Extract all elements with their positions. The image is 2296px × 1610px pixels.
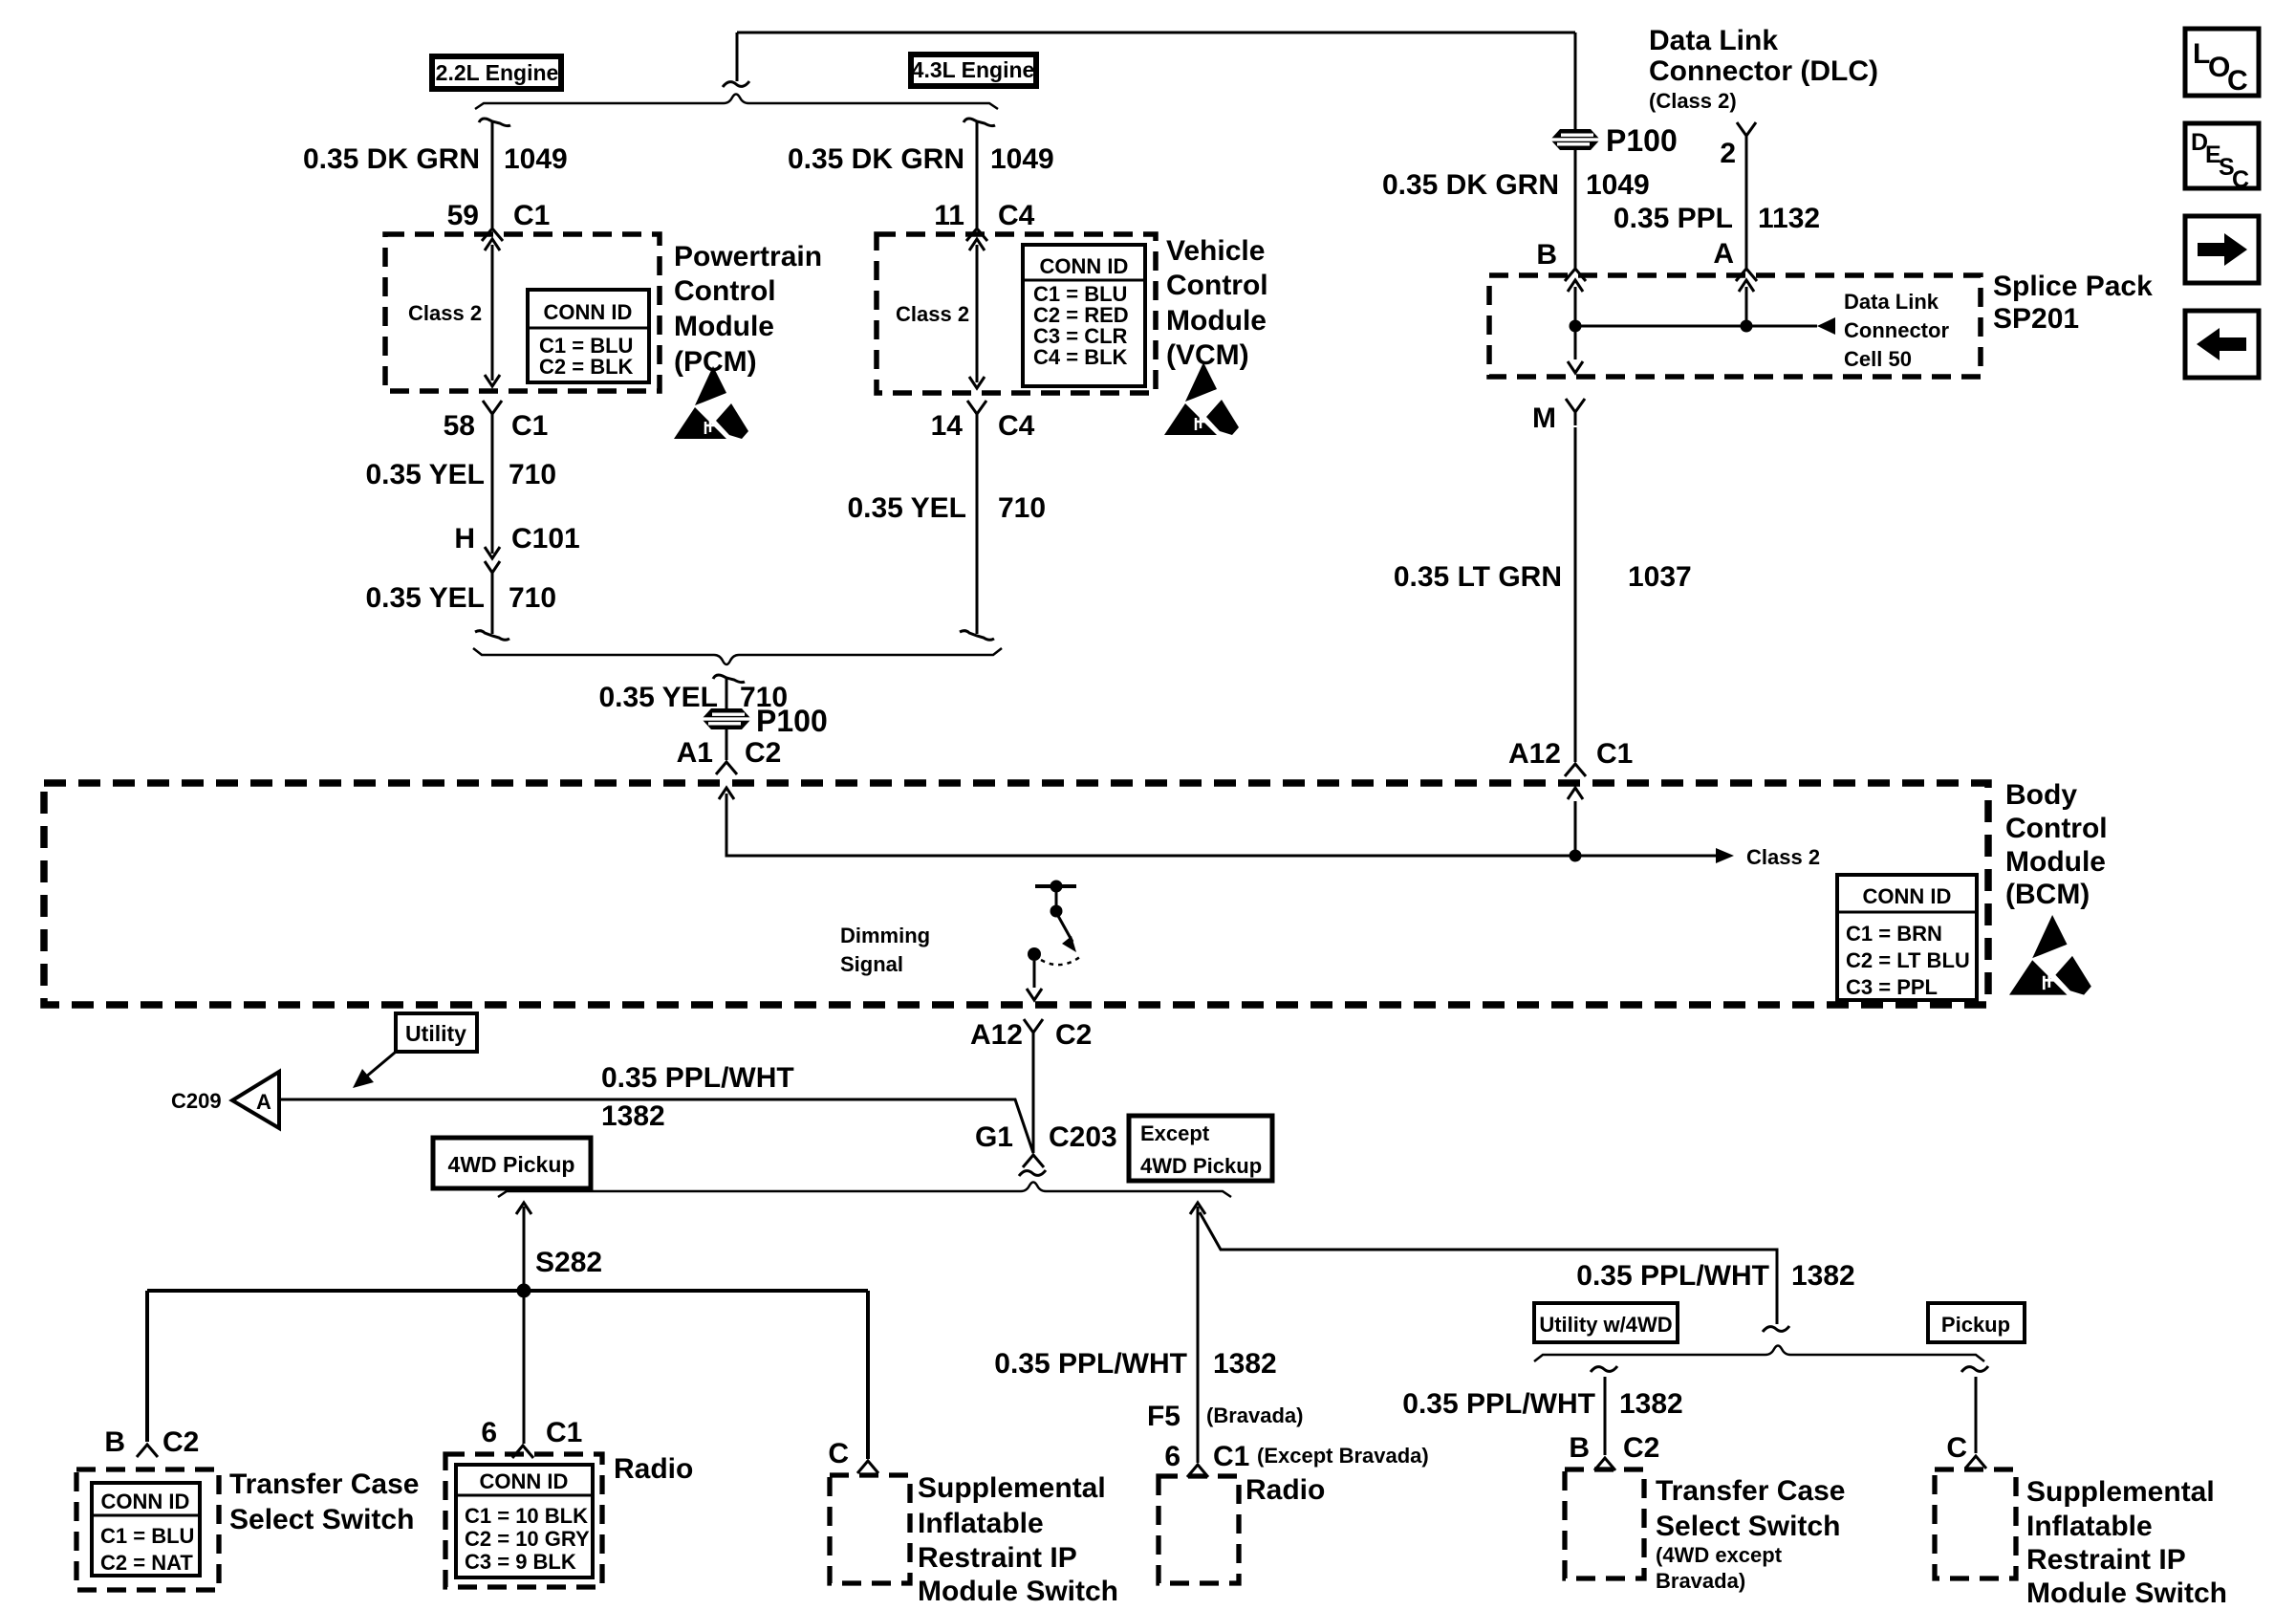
svg-text:4WD Pickup: 4WD Pickup	[1140, 1154, 1262, 1178]
svg-text:Splice Pack: Splice Pack	[1993, 271, 2153, 302]
svg-text:0.35 YEL: 0.35 YEL	[365, 582, 485, 614]
CONN ID table VCM	[1023, 245, 1145, 386]
pin G1 / connector C203 label	[975, 1121, 1117, 1153]
wire DLC drop to splice pack	[1574, 33, 1577, 269]
svg-text:C3 = 9 BLK: C3 = 9 BLK	[465, 1550, 576, 1574]
label 0.35 DK GRN 1049 (4.3L branch)	[788, 143, 1054, 175]
label Supplemental Inflatable Restraint IP Module Switch (left)	[918, 1472, 1118, 1607]
connector Y at splice pin M	[1566, 399, 1585, 425]
svg-text:Bravada): Bravada)	[1656, 1569, 1745, 1593]
svg-text:1382: 1382	[1213, 1348, 1277, 1380]
module box VCM (dashed)	[877, 234, 1156, 393]
svg-text:1382: 1382	[1791, 1260, 1855, 1292]
CONN ID table PCM	[528, 290, 649, 382]
svg-text:B: B	[1536, 239, 1557, 271]
pin B / connector C2 label (transfer case right)	[1569, 1432, 1659, 1464]
svg-text:11: 11	[934, 200, 964, 231]
component box Radio (left, dashed)	[445, 1454, 602, 1587]
splice pack SP201 box (dashed)	[1489, 275, 1981, 377]
label 0.35 PPL/WHT 1382 (radio right riser)	[994, 1348, 1276, 1380]
svg-text:Select Switch: Select Switch	[1656, 1511, 1840, 1542]
nav icon arrow left	[2185, 311, 2259, 378]
pin 6 / connector C1 label (radio left)	[481, 1417, 582, 1448]
label Dimming Signal	[840, 924, 930, 976]
svg-text:C101: C101	[511, 523, 580, 555]
junction node splice A	[1741, 320, 1753, 333]
svg-text:H: H	[454, 523, 475, 555]
pin 59 / connector C1 label	[447, 200, 551, 231]
connector chevron splice pin A	[1736, 269, 1757, 281]
label Class 2 (VCM)	[896, 302, 969, 326]
svg-text:1382: 1382	[601, 1100, 665, 1132]
svg-text:C1: C1	[546, 1417, 582, 1448]
wire dimming signal to A12/C2	[1027, 961, 1042, 1000]
label 0.35 DK GRN 1049 (DLC)	[1382, 169, 1650, 201]
label Splice Pack SP201	[1993, 271, 2153, 335]
svg-text:Restraint IP: Restraint IP	[2026, 1544, 2186, 1576]
svg-text:0.35 PPL/WHT: 0.35 PPL/WHT	[601, 1062, 794, 1094]
option label box 4WD Pickup	[433, 1138, 591, 1188]
svg-text:C4: C4	[998, 410, 1035, 442]
wire class 2 arrow inside BCM	[1575, 848, 1734, 863]
svg-text:Utility w/4WD: Utility w/4WD	[1539, 1313, 1672, 1337]
connector chevron at VCM pin 11	[966, 228, 987, 241]
svg-text:CONN ID: CONN ID	[544, 300, 633, 324]
label 0.35 PPL/WHT 1382 (riser)	[1576, 1260, 1854, 1292]
junction node BCM class 2	[1570, 850, 1582, 862]
svg-text:P100: P100	[1606, 123, 1678, 158]
svg-text:Inflatable: Inflatable	[2026, 1511, 2153, 1542]
connector Y at BCM pin A12/C2	[1024, 1019, 1043, 1046]
svg-text:C209: C209	[171, 1089, 222, 1113]
svg-text:Dimming: Dimming	[840, 924, 930, 947]
component box SIR IP module switch (left, dashed)	[830, 1475, 910, 1583]
connector chevron at BCM pin A12/C1	[1565, 764, 1586, 776]
svg-text:C1: C1	[1596, 738, 1633, 770]
option label box 4.3L Engine	[911, 54, 1036, 86]
svg-text:0.35 LT GRN: 0.35 LT GRN	[1394, 561, 1562, 593]
label Transfer Case Select Switch (4WD except Bravada)	[1656, 1475, 1845, 1593]
bulkhead connector P100 (upper)	[1550, 129, 1600, 150]
wire splice internal M leg with arrow	[1568, 326, 1583, 373]
wire S282 to radio	[523, 1291, 526, 1444]
svg-text:Powertrain: Powertrain	[674, 241, 822, 272]
pin 11 / connector C4 label	[934, 200, 1034, 231]
label 0.35 LT GRN 1037	[1394, 561, 1692, 593]
svg-text:C1: C1	[511, 410, 548, 442]
svg-text:0.35 DK GRN: 0.35 DK GRN	[303, 143, 480, 175]
svg-text:710: 710	[998, 492, 1046, 524]
svg-text:A1: A1	[677, 737, 713, 769]
svg-text:A: A	[1713, 238, 1734, 270]
dimming signal wiper node	[1028, 947, 1041, 961]
svg-text:Cell 50: Cell 50	[1844, 347, 1912, 371]
svg-text:0.35 DK GRN: 0.35 DK GRN	[788, 143, 964, 175]
wire to transfer case select switch (right)	[1591, 1366, 1617, 1455]
svg-text:A: A	[256, 1090, 271, 1114]
svg-text:M: M	[1532, 402, 1556, 434]
connector chevron at transfer case left	[137, 1445, 158, 1457]
connector chevron at transfer case right	[1594, 1458, 1615, 1470]
pin 14 / connector C4 label	[931, 410, 1035, 442]
svg-text:A12: A12	[970, 1019, 1023, 1051]
svg-text:A12: A12	[1508, 738, 1561, 770]
svg-text:6: 6	[1164, 1441, 1180, 1472]
svg-text:S282: S282	[535, 1247, 602, 1278]
pin 58 / connector C1 label	[444, 410, 549, 442]
svg-text:Except: Except	[1140, 1121, 1210, 1145]
label Data Link Connector Cell 50	[1844, 290, 1949, 371]
wire 0.35 LT GRN 1037	[1574, 427, 1577, 762]
nav icon DESC	[2185, 123, 2259, 193]
pin F5 label (Bravada)	[1147, 1401, 1304, 1432]
pin C label (SIR right)	[1946, 1432, 1967, 1464]
svg-text:0.35 PPL/WHT: 0.35 PPL/WHT	[1576, 1260, 1769, 1292]
label pin H / connector C101	[454, 523, 579, 555]
svg-text:0.35 DK GRN: 0.35 DK GRN	[1382, 169, 1559, 201]
svg-text:C2: C2	[162, 1426, 199, 1458]
svg-text:Class 2: Class 2	[896, 302, 969, 326]
wire class 2 trunk (top)	[737, 33, 1575, 81]
svg-text:0.35 YEL: 0.35 YEL	[847, 492, 966, 524]
svg-text:6: 6	[481, 1417, 497, 1448]
wire inside VCM with arrows (Class 2)	[969, 239, 985, 388]
component box SIR IP module switch (right, dashed)	[1935, 1469, 2016, 1578]
svg-text:Utility: Utility	[405, 1021, 466, 1046]
svg-text:C1: C1	[513, 200, 550, 231]
wire break tilde under trunk drop	[723, 81, 749, 87]
svg-text:Radio: Radio	[1245, 1474, 1325, 1506]
svg-text:CONN ID: CONN ID	[101, 1490, 190, 1513]
svg-text:58: 58	[444, 410, 475, 442]
svg-text:C1: C1	[1213, 1441, 1249, 1472]
svg-text:(Class 2): (Class 2)	[1649, 89, 1737, 113]
svg-text:C1 = BRN: C1 = BRN	[1846, 922, 1942, 946]
leader arrow from Utility box	[353, 1053, 395, 1088]
svg-text:C4: C4	[998, 200, 1035, 231]
svg-text:SP201: SP201	[1993, 303, 2079, 335]
wire 0.35 YEL 710 (VCM down)	[960, 427, 994, 640]
svg-text:C: C	[828, 1438, 849, 1469]
svg-text:Pickup: Pickup	[1941, 1313, 2010, 1337]
brace joining engine branches	[473, 648, 1002, 664]
pin C label (SIR left)	[828, 1438, 849, 1469]
svg-text:Module Switch: Module Switch	[918, 1576, 1118, 1607]
connector Y at VCM pin 14	[967, 401, 986, 427]
CONN ID table radio left	[456, 1465, 593, 1577]
svg-text:Connector: Connector	[1844, 318, 1949, 342]
label P100 (lower)	[756, 704, 828, 738]
label Body Control Module (BCM)	[2005, 779, 2108, 910]
off-page connector triangle A (C209)	[232, 1072, 279, 1128]
label 0.35 YEL 710 (P100)	[598, 682, 788, 713]
CONN ID table transfer case left	[92, 1483, 200, 1576]
svg-text:CONN ID: CONN ID	[1863, 884, 1952, 908]
svg-text:C2: C2	[1623, 1432, 1659, 1464]
wire except-4WD-pickup riser with arrow	[1190, 1203, 1789, 1463]
label 0.35 DK GRN 1049 (2.2L branch)	[303, 143, 568, 175]
label 0.35 YEL 710 (4.3L branch)	[847, 492, 1046, 524]
brace option split at C203	[498, 1183, 1231, 1198]
option label box Pickup	[1928, 1303, 2025, 1342]
junction node splice B	[1570, 320, 1582, 333]
svg-text:(Bravada): (Bravada)	[1206, 1403, 1303, 1427]
connector chevron at G1/C203	[1019, 1155, 1046, 1176]
svg-text:Connector (DLC): Connector (DLC)	[1649, 55, 1878, 87]
wire inside PCM with arrows (Class 2)	[485, 239, 500, 386]
label Radio (left)	[614, 1453, 693, 1485]
wire S282 to SIR module switch	[866, 1291, 870, 1459]
wire DLC pin 2 pigtail	[1737, 122, 1756, 269]
ESD symbol BCM	[2009, 915, 2091, 995]
svg-text:C2 = NAT: C2 = NAT	[100, 1551, 193, 1575]
svg-text:CONN ID: CONN ID	[1040, 254, 1129, 278]
svg-text:Inflatable: Inflatable	[918, 1508, 1044, 1539]
svg-text:1132: 1132	[1758, 203, 1820, 234]
bulkhead connector P100 (lower)	[702, 708, 751, 729]
junction node S282	[517, 1284, 531, 1298]
pin 2 label at DLC	[1720, 138, 1736, 169]
pin M label	[1532, 402, 1556, 434]
svg-text:C: C	[2227, 65, 2248, 97]
wire 2.2L engine branch	[479, 119, 510, 228]
ESD symbol VCM	[1164, 362, 1239, 435]
svg-text:4.3L Engine: 4.3L Engine	[912, 57, 1035, 82]
wire 0.35 PPL/WHT 1382 to C209	[279, 1099, 1033, 1153]
wire BCM A1 entry arrow	[719, 788, 1575, 856]
svg-text:B: B	[104, 1426, 125, 1458]
svg-text:Class 2: Class 2	[408, 301, 482, 325]
dimming signal switch blade with arrow	[1058, 916, 1076, 952]
label Radio (right)	[1245, 1474, 1325, 1506]
svg-text:59: 59	[447, 200, 479, 231]
svg-text:1049: 1049	[1586, 169, 1650, 201]
wire 0.35 YEL 710 to P100	[713, 675, 745, 760]
svg-text:(4WD except: (4WD except	[1656, 1543, 1783, 1567]
svg-text:Radio: Radio	[614, 1453, 693, 1485]
svg-text:C4 = BLK: C4 = BLK	[1033, 345, 1128, 369]
pin A1 / connector C2 label	[677, 737, 782, 769]
label P100 (upper)	[1606, 123, 1678, 158]
svg-text:Vehicle: Vehicle	[1166, 235, 1265, 267]
svg-text:C2 = 10 GRY: C2 = 10 GRY	[465, 1527, 590, 1551]
wire S282 riser with arrow	[516, 1203, 531, 1291]
svg-text:Data Link: Data Link	[1649, 25, 1778, 56]
label Transfer Case Select Switch (left)	[229, 1469, 419, 1535]
label 0.35 PPL/WHT 1382 (C209 run)	[601, 1062, 794, 1132]
svg-text:0.35 PPL/WHT: 0.35 PPL/WHT	[1402, 1388, 1595, 1420]
svg-text:Module: Module	[674, 311, 774, 342]
option label box Utility w/4WD	[1534, 1303, 1678, 1342]
label Supplemental Inflatable Restraint IP Module Switch (right)	[2026, 1476, 2227, 1609]
label 0.35 YEL 710 (lower)	[365, 582, 556, 614]
label Class 2 (PCM)	[408, 301, 482, 325]
svg-text:(Except Bravada): (Except Bravada)	[1257, 1444, 1429, 1468]
svg-text:Class 2: Class 2	[1746, 845, 1820, 869]
svg-text:P100: P100	[756, 704, 828, 738]
connector chevron splice pin B	[1565, 269, 1586, 281]
label 0.35 PPL 1132	[1614, 203, 1820, 234]
svg-text:Module Switch: Module Switch	[2026, 1577, 2227, 1609]
pin B label	[1536, 239, 1557, 271]
svg-text:1049: 1049	[504, 143, 568, 175]
svg-text:C: C	[1946, 1432, 1967, 1464]
component box Transfer Case Select Switch (right, dashed)	[1565, 1469, 1644, 1578]
svg-text:0.35 YEL: 0.35 YEL	[365, 459, 485, 490]
svg-text:C2 = BLK: C2 = BLK	[539, 355, 634, 379]
pin A label	[1713, 238, 1734, 270]
svg-text:B: B	[1569, 1432, 1590, 1464]
svg-text:1049: 1049	[990, 143, 1054, 175]
label Powertrain Control Module (PCM)	[674, 241, 822, 378]
svg-text:Transfer Case: Transfer Case	[1656, 1475, 1845, 1507]
label Class 2 (BCM)	[1746, 845, 1820, 869]
svg-text:C1 = BLU: C1 = BLU	[100, 1524, 194, 1548]
label Vehicle Control Module (VCM)	[1166, 235, 1268, 371]
connector chevron at SIR right	[1965, 1456, 1986, 1469]
dimming signal travel arc (dashed)	[1041, 956, 1081, 965]
svg-text:C2 = LT BLU: C2 = LT BLU	[1846, 948, 1970, 972]
svg-text:Supplemental: Supplemental	[2026, 1476, 2215, 1508]
svg-text:Module: Module	[2005, 846, 2106, 878]
svg-text:C: C	[2232, 166, 2249, 193]
svg-text:Control: Control	[674, 275, 776, 307]
module box PCM (dashed)	[385, 234, 660, 391]
connector chevron at radio left	[512, 1446, 533, 1458]
svg-text:1382: 1382	[1619, 1388, 1683, 1420]
svg-text:Module: Module	[1166, 305, 1267, 337]
component box Transfer Case Select Switch (left, dashed)	[76, 1469, 219, 1590]
svg-text:Supplemental: Supplemental	[918, 1472, 1106, 1504]
pin A12 / connector C2 label	[970, 1019, 1092, 1051]
svg-text:Control: Control	[2005, 813, 2108, 844]
svg-text:(BCM): (BCM)	[2005, 879, 2090, 910]
connector chevron at BCM pin A1	[716, 762, 737, 774]
brace engine option split	[475, 95, 998, 110]
connector chevron at SIR left	[857, 1461, 878, 1473]
svg-text:C1 = 10 BLK: C1 = 10 BLK	[465, 1504, 588, 1528]
dimming signal switch contact bar	[1035, 881, 1076, 918]
svg-text:Body: Body	[2005, 779, 2077, 811]
svg-text:0.35 YEL: 0.35 YEL	[598, 682, 718, 713]
svg-text:2: 2	[1720, 138, 1736, 169]
svg-text:0.35 PPL/WHT: 0.35 PPL/WHT	[994, 1348, 1187, 1380]
svg-text:Signal: Signal	[840, 952, 903, 976]
svg-text:C2: C2	[1055, 1019, 1092, 1051]
brace option split utility/pickup	[1534, 1346, 1984, 1362]
wire to SIR module switch (right)	[1961, 1366, 1988, 1453]
pin 6 / connector C1 label (radio right)	[1164, 1441, 1428, 1472]
component box Radio (right, dashed)	[1159, 1476, 1239, 1583]
label 0.35 PPL/WHT 1382 (transfer case right)	[1402, 1388, 1682, 1420]
svg-text:Transfer Case: Transfer Case	[229, 1469, 419, 1500]
connector C101 inline symbol	[485, 547, 500, 573]
svg-text:F5: F5	[1147, 1401, 1180, 1432]
wire BCM A12 entry arrow	[1568, 788, 1583, 856]
CONN ID table BCM	[1837, 875, 1977, 1000]
label C209	[171, 1089, 222, 1113]
svg-text:4WD Pickup: 4WD Pickup	[448, 1152, 575, 1177]
svg-text:Data Link: Data Link	[1844, 290, 1939, 314]
svg-text:CONN ID: CONN ID	[480, 1469, 569, 1493]
svg-text:0.35 PPL: 0.35 PPL	[1614, 203, 1733, 234]
wire 0.35 YEL 710 (C101 down)	[475, 573, 509, 640]
wire splice internal A leg	[1739, 280, 1754, 326]
option label box Utility	[396, 1013, 477, 1052]
connector chevron at PCM pin 59	[482, 228, 503, 241]
svg-text:Restraint IP: Restraint IP	[918, 1542, 1077, 1574]
svg-text:2.2L Engine: 2.2L Engine	[436, 60, 559, 85]
svg-text:14: 14	[931, 410, 964, 442]
connector Y at PCM pin 58	[483, 401, 502, 427]
svg-text:710: 710	[509, 459, 556, 490]
wire S282 bus	[147, 1289, 868, 1293]
connector chevron at radio right	[1187, 1465, 1208, 1477]
nav icon arrow right	[2185, 216, 2259, 283]
svg-text:1037: 1037	[1628, 561, 1692, 593]
option label box Except 4WD Pickup	[1129, 1116, 1272, 1181]
wire 0.35 YEL 710 (PCM to C101)	[491, 427, 494, 554]
svg-text:(VCM): (VCM)	[1166, 339, 1249, 371]
ESD symbol PCM	[674, 366, 748, 439]
wire S282 to transfer case select switch	[145, 1291, 149, 1442]
wire A12/C2 down to C203	[1032, 1046, 1035, 1153]
label Data Link Connector (DLC)	[1649, 25, 1878, 113]
module box BCM (dashed)	[44, 783, 1988, 1005]
svg-text:C2: C2	[745, 737, 781, 769]
wire 4.3L engine branch	[964, 119, 995, 228]
option label box 2.2L Engine	[432, 56, 561, 89]
wire splice bus to data link cell 50	[1575, 317, 1835, 335]
label S282	[535, 1247, 602, 1278]
svg-text:Control: Control	[1166, 270, 1268, 301]
svg-text:710: 710	[509, 582, 556, 614]
nav icon LOC	[2185, 29, 2259, 97]
svg-text:C3 = PPL: C3 = PPL	[1846, 975, 1938, 999]
pin A12 / connector C1 label	[1508, 738, 1633, 770]
svg-text:G1: G1	[975, 1121, 1013, 1153]
label 0.35 YEL 710 (upper)	[365, 459, 556, 490]
svg-text:C203: C203	[1049, 1121, 1117, 1153]
svg-text:Select Switch: Select Switch	[229, 1504, 414, 1535]
pin B / connector C2 label (transfer case left)	[104, 1426, 199, 1458]
wire splice internal B leg	[1568, 280, 1583, 326]
